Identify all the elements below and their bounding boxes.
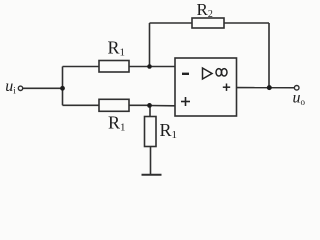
- svg-text:R1: R1: [160, 120, 178, 141]
- svg-text:R1: R1: [108, 113, 126, 134]
- svg-text:uo: uo: [293, 90, 306, 108]
- svg-text:R1: R1: [108, 38, 126, 59]
- svg-text:R2: R2: [197, 0, 213, 20]
- svg-text:ui: ui: [5, 78, 16, 96]
